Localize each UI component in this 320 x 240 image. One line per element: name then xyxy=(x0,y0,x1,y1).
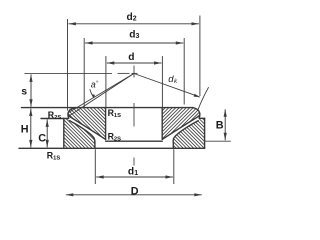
right sphere surface xyxy=(162,116,199,140)
dim C xyxy=(46,119,48,147)
left rim flat and R2s ref xyxy=(41,118,69,120)
vertical centre line xyxy=(133,66,135,78)
dim H xyxy=(30,109,32,148)
alpha angle arc xyxy=(90,89,94,97)
seat top edge seen through bore xyxy=(106,140,163,142)
d extension lines xyxy=(105,56,107,107)
svg-text:1: 1 xyxy=(134,170,138,177)
svg-text:d: d xyxy=(128,52,134,63)
dk leader arrowhead xyxy=(194,94,201,97)
dk leader line xyxy=(134,74,200,97)
dim d3 xyxy=(85,42,183,44)
dim d xyxy=(107,62,162,64)
horizontal centre line xyxy=(25,72,113,74)
right outer corner silhouette xyxy=(192,108,200,119)
svg-text:1S: 1S xyxy=(114,113,121,119)
left housing washer hatch xyxy=(60,115,95,150)
right housing washer hatch xyxy=(170,115,207,150)
svg-text:2S: 2S xyxy=(114,137,121,143)
dim B xyxy=(224,109,226,140)
dim D xyxy=(66,194,202,196)
right shaft washer hatch xyxy=(158,105,204,142)
tilt angle line upper xyxy=(68,73,134,112)
shaft washer top face xyxy=(22,107,194,109)
B bottom reference xyxy=(204,140,231,142)
d1 extension lines xyxy=(94,149,96,184)
dk sphere edge arc xyxy=(198,87,209,110)
svg-text:2: 2 xyxy=(133,15,137,22)
tilt angle line lower xyxy=(68,73,134,116)
left shaft bore edge xyxy=(105,108,107,140)
left housing OD edge xyxy=(63,118,65,148)
right rim flat xyxy=(200,117,205,119)
svg-text:D: D xyxy=(131,185,139,197)
svg-text:2S: 2S xyxy=(54,115,61,121)
left sphere surface xyxy=(69,116,106,140)
housing washer bottom face xyxy=(19,147,205,149)
svg-text:C: C xyxy=(38,132,46,144)
svg-text:d: d xyxy=(128,166,134,177)
right housing bore edge xyxy=(172,142,174,148)
right housing OD edge xyxy=(204,118,206,148)
d2 extension lines xyxy=(67,19,69,111)
left housing bore edge xyxy=(94,142,96,148)
alpha arc arrowhead xyxy=(92,94,95,98)
left shaft washer hatch xyxy=(62,105,108,142)
svg-text:°: ° xyxy=(96,79,99,87)
left outer corner silhouette xyxy=(68,108,76,119)
dim d1 xyxy=(96,176,173,178)
right seat surface xyxy=(173,121,198,143)
svg-text:1S: 1S xyxy=(53,155,60,161)
dim d2 xyxy=(68,23,199,25)
right shaft bore edge xyxy=(161,108,163,140)
svg-text:3: 3 xyxy=(136,33,140,40)
svg-text:s: s xyxy=(21,85,27,97)
d3 extension lines xyxy=(83,38,85,107)
svg-text:H: H xyxy=(21,123,29,135)
dim s xyxy=(30,74,32,106)
left seat surface xyxy=(70,121,95,143)
svg-text:B: B xyxy=(216,120,224,132)
